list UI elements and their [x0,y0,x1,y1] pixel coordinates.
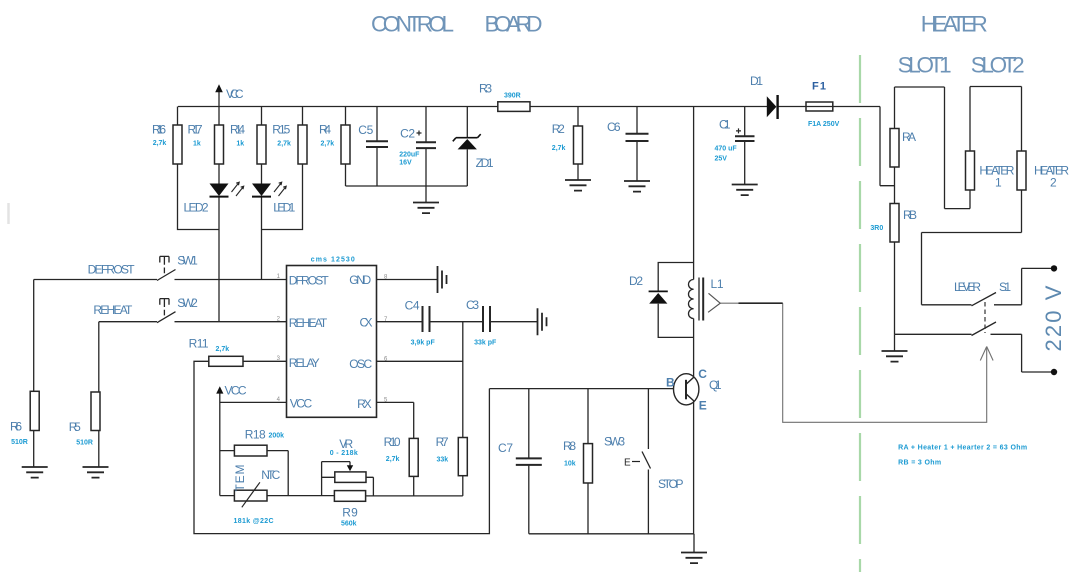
svg-text:200k: 200k [269,433,285,440]
svg-text:2,7k: 2,7k [216,346,230,353]
svg-text:L1: L1 [711,277,724,291]
svg-text:10k: 10k [564,461,576,468]
svg-text:220 V: 220 V [1041,285,1066,351]
svg-text:R11: R11 [189,337,209,351]
svg-text:RA + Heater 1 + Hearter 2 = 63: RA + Heater 1 + Hearter 2 = 63 Ohm [898,444,1027,451]
svg-text:HEATER: HEATER [921,12,988,37]
svg-text:SLOT1: SLOT1 [898,53,952,78]
svg-text:C1: C1 [719,118,731,132]
svg-text:VCC: VCC [225,384,247,398]
svg-text:R5: R5 [69,420,81,434]
svg-text:R15: R15 [272,123,290,137]
svg-text:BOARD: BOARD [485,12,543,37]
svg-text:NTC: NTC [261,468,280,482]
svg-text:ZD1: ZD1 [476,156,494,170]
svg-text:560k: 560k [341,521,357,528]
svg-text:510R: 510R [76,440,93,447]
svg-text:R9: R9 [342,506,358,520]
svg-text:16V: 16V [399,160,412,167]
svg-text:Q1: Q1 [709,378,722,392]
svg-text:R8: R8 [563,439,576,453]
svg-text:R16: R16 [152,123,166,137]
svg-text:VR: VR [339,437,353,451]
svg-text:33k pF: 33k pF [474,340,497,347]
svg-text:R4: R4 [319,123,331,137]
svg-text:1k: 1k [193,141,201,148]
svg-text:CX: CX [360,316,373,330]
svg-text:R6: R6 [10,420,22,434]
svg-text:F1: F1 [812,81,826,93]
svg-text:C6: C6 [607,120,621,134]
svg-text:RX: RX [357,397,372,411]
svg-text:C2: C2 [400,127,415,141]
svg-text:25V: 25V [715,156,728,163]
svg-text:1: 1 [995,176,1002,190]
svg-text:VCC: VCC [290,397,313,411]
svg-text:3R0: 3R0 [870,225,883,232]
svg-text:REHEAT: REHEAT [93,303,133,317]
svg-text:R17: R17 [188,123,203,137]
svg-text:2,7k: 2,7k [386,456,400,463]
svg-text:D2: D2 [629,274,643,288]
svg-text:1k: 1k [236,141,244,148]
svg-text:2,7k: 2,7k [153,140,167,147]
svg-text:GND: GND [349,273,371,287]
svg-text:D1: D1 [750,74,763,88]
svg-text:SW3: SW3 [604,435,625,449]
svg-text:470 uF: 470 uF [715,146,738,153]
svg-text:C3: C3 [466,298,479,312]
svg-text:E: E [624,458,631,469]
svg-text:F1A 250V: F1A 250V [808,121,840,128]
svg-text:B: B [666,376,675,390]
svg-text:DFROST: DFROST [289,274,330,288]
svg-text:RELAY: RELAY [289,356,320,370]
svg-text:R3: R3 [479,82,492,96]
svg-text:33k: 33k [437,456,449,463]
svg-text:LED2: LED2 [184,201,209,215]
svg-text:LED1: LED1 [273,201,295,215]
svg-text:RB = 3 Ohm: RB = 3 Ohm [898,460,941,467]
svg-text:2,7k: 2,7k [321,141,335,148]
svg-text:VCC: VCC [226,87,244,101]
svg-text:cms 12530: cms 12530 [311,257,355,264]
svg-text:E: E [699,399,707,413]
svg-text:R14: R14 [230,123,245,137]
svg-text:C4: C4 [405,299,420,313]
svg-text:SLOT2: SLOT2 [971,53,1025,78]
svg-text:SW1: SW1 [177,254,198,268]
svg-text:CONTROL: CONTROL [371,12,454,37]
svg-text:SW2: SW2 [177,296,198,310]
svg-text:220uF: 220uF [399,152,420,159]
svg-text:2,7k: 2,7k [277,141,291,148]
svg-text:C5: C5 [358,123,373,137]
svg-text:DEFROST: DEFROST [88,263,136,277]
svg-text:R10: R10 [384,435,401,449]
svg-text:OSC: OSC [349,357,372,371]
svg-text:2: 2 [1050,176,1057,190]
svg-text:C: C [698,367,707,381]
svg-text:S1: S1 [999,280,1011,294]
svg-text:STOP: STOP [658,477,684,491]
svg-text:510R: 510R [11,439,28,446]
svg-text:390R: 390R [504,92,521,99]
svg-text:REHEAT: REHEAT [289,316,328,330]
svg-text:LEVER: LEVER [954,280,981,294]
svg-text:RB: RB [903,208,917,222]
svg-text:R2: R2 [552,122,565,136]
svg-text:R7: R7 [436,435,449,449]
svg-text:181k @22C: 181k @22C [234,518,274,525]
svg-text:3,9k pF: 3,9k pF [411,340,436,347]
svg-text:R18: R18 [245,428,266,442]
svg-text:TEM: TEM [233,465,247,492]
svg-text:RA: RA [902,130,916,144]
svg-text:C7: C7 [498,441,513,455]
svg-text:0 - 218k: 0 - 218k [330,450,358,457]
svg-text:2,7k: 2,7k [552,145,566,152]
